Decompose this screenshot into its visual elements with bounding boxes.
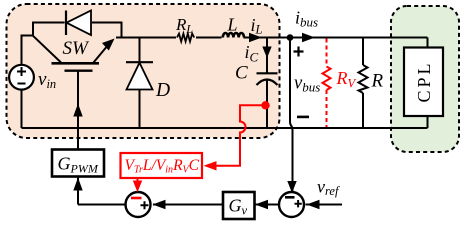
svg-text:CPL: CPL: [414, 60, 434, 102]
svg-text:L: L: [227, 15, 238, 35]
svg-text:C: C: [235, 63, 248, 84]
svg-text:SW: SW: [63, 38, 91, 59]
svg-text:R: R: [371, 71, 384, 92]
svg-text:D: D: [155, 80, 170, 101]
